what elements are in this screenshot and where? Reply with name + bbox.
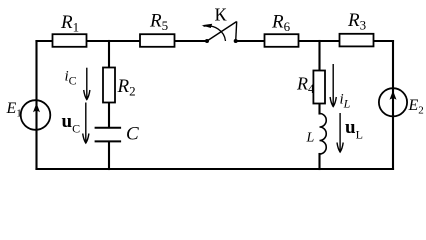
wire capacitor to bottom — [108, 142, 110, 169]
voltage arrow uC — [62, 103, 89, 144]
current arrow iL — [330, 64, 351, 111]
wire top node to R4 — [318, 41, 320, 70]
wire R3 to top-right corner — [374, 40, 393, 42]
switch blade — [207, 22, 237, 42]
current arrow iC — [65, 68, 90, 100]
switch K — [202, 5, 238, 44]
wire bottom horizontal — [37, 168, 394, 170]
voltage arrow uL — [337, 113, 363, 152]
source E2 — [379, 88, 424, 116]
resistor R6 — [265, 11, 299, 46]
switch motion arc — [204, 26, 226, 41]
resistor R5 — [140, 11, 175, 47]
resistor R3 — [340, 10, 374, 46]
inductor L — [306, 114, 327, 155]
wire R2 to capacitor — [108, 103, 110, 127]
wire top-left corner to R1 — [37, 40, 53, 42]
switch arc arrowhead — [202, 24, 213, 28]
wire switch right terminal to R6 — [237, 40, 265, 42]
wire top node to R2 — [108, 41, 110, 67]
wire R6 to R3 — [299, 40, 339, 42]
wire inductor to bottom — [318, 154, 320, 169]
svg-text:К: К — [215, 5, 228, 25]
resistor R1 — [53, 12, 87, 47]
switch right terminal dot — [234, 39, 238, 43]
wire right vertical with E2 inline — [392, 41, 394, 169]
wire R4 to inductor — [318, 104, 320, 114]
switch left terminal dot — [205, 39, 209, 43]
switch riser — [236, 22, 237, 42]
wire R1 to R5 — [87, 40, 140, 42]
svg-text:L: L — [306, 131, 315, 146]
wire left vertical with E1 inline — [35, 41, 37, 169]
svg-text:C: C — [126, 124, 139, 145]
resistor R4 — [296, 71, 325, 104]
source E1 — [6, 100, 51, 130]
capacitor C — [95, 124, 139, 145]
wire R5 to switch left terminal — [175, 40, 206, 42]
resistor R2 — [103, 68, 136, 103]
